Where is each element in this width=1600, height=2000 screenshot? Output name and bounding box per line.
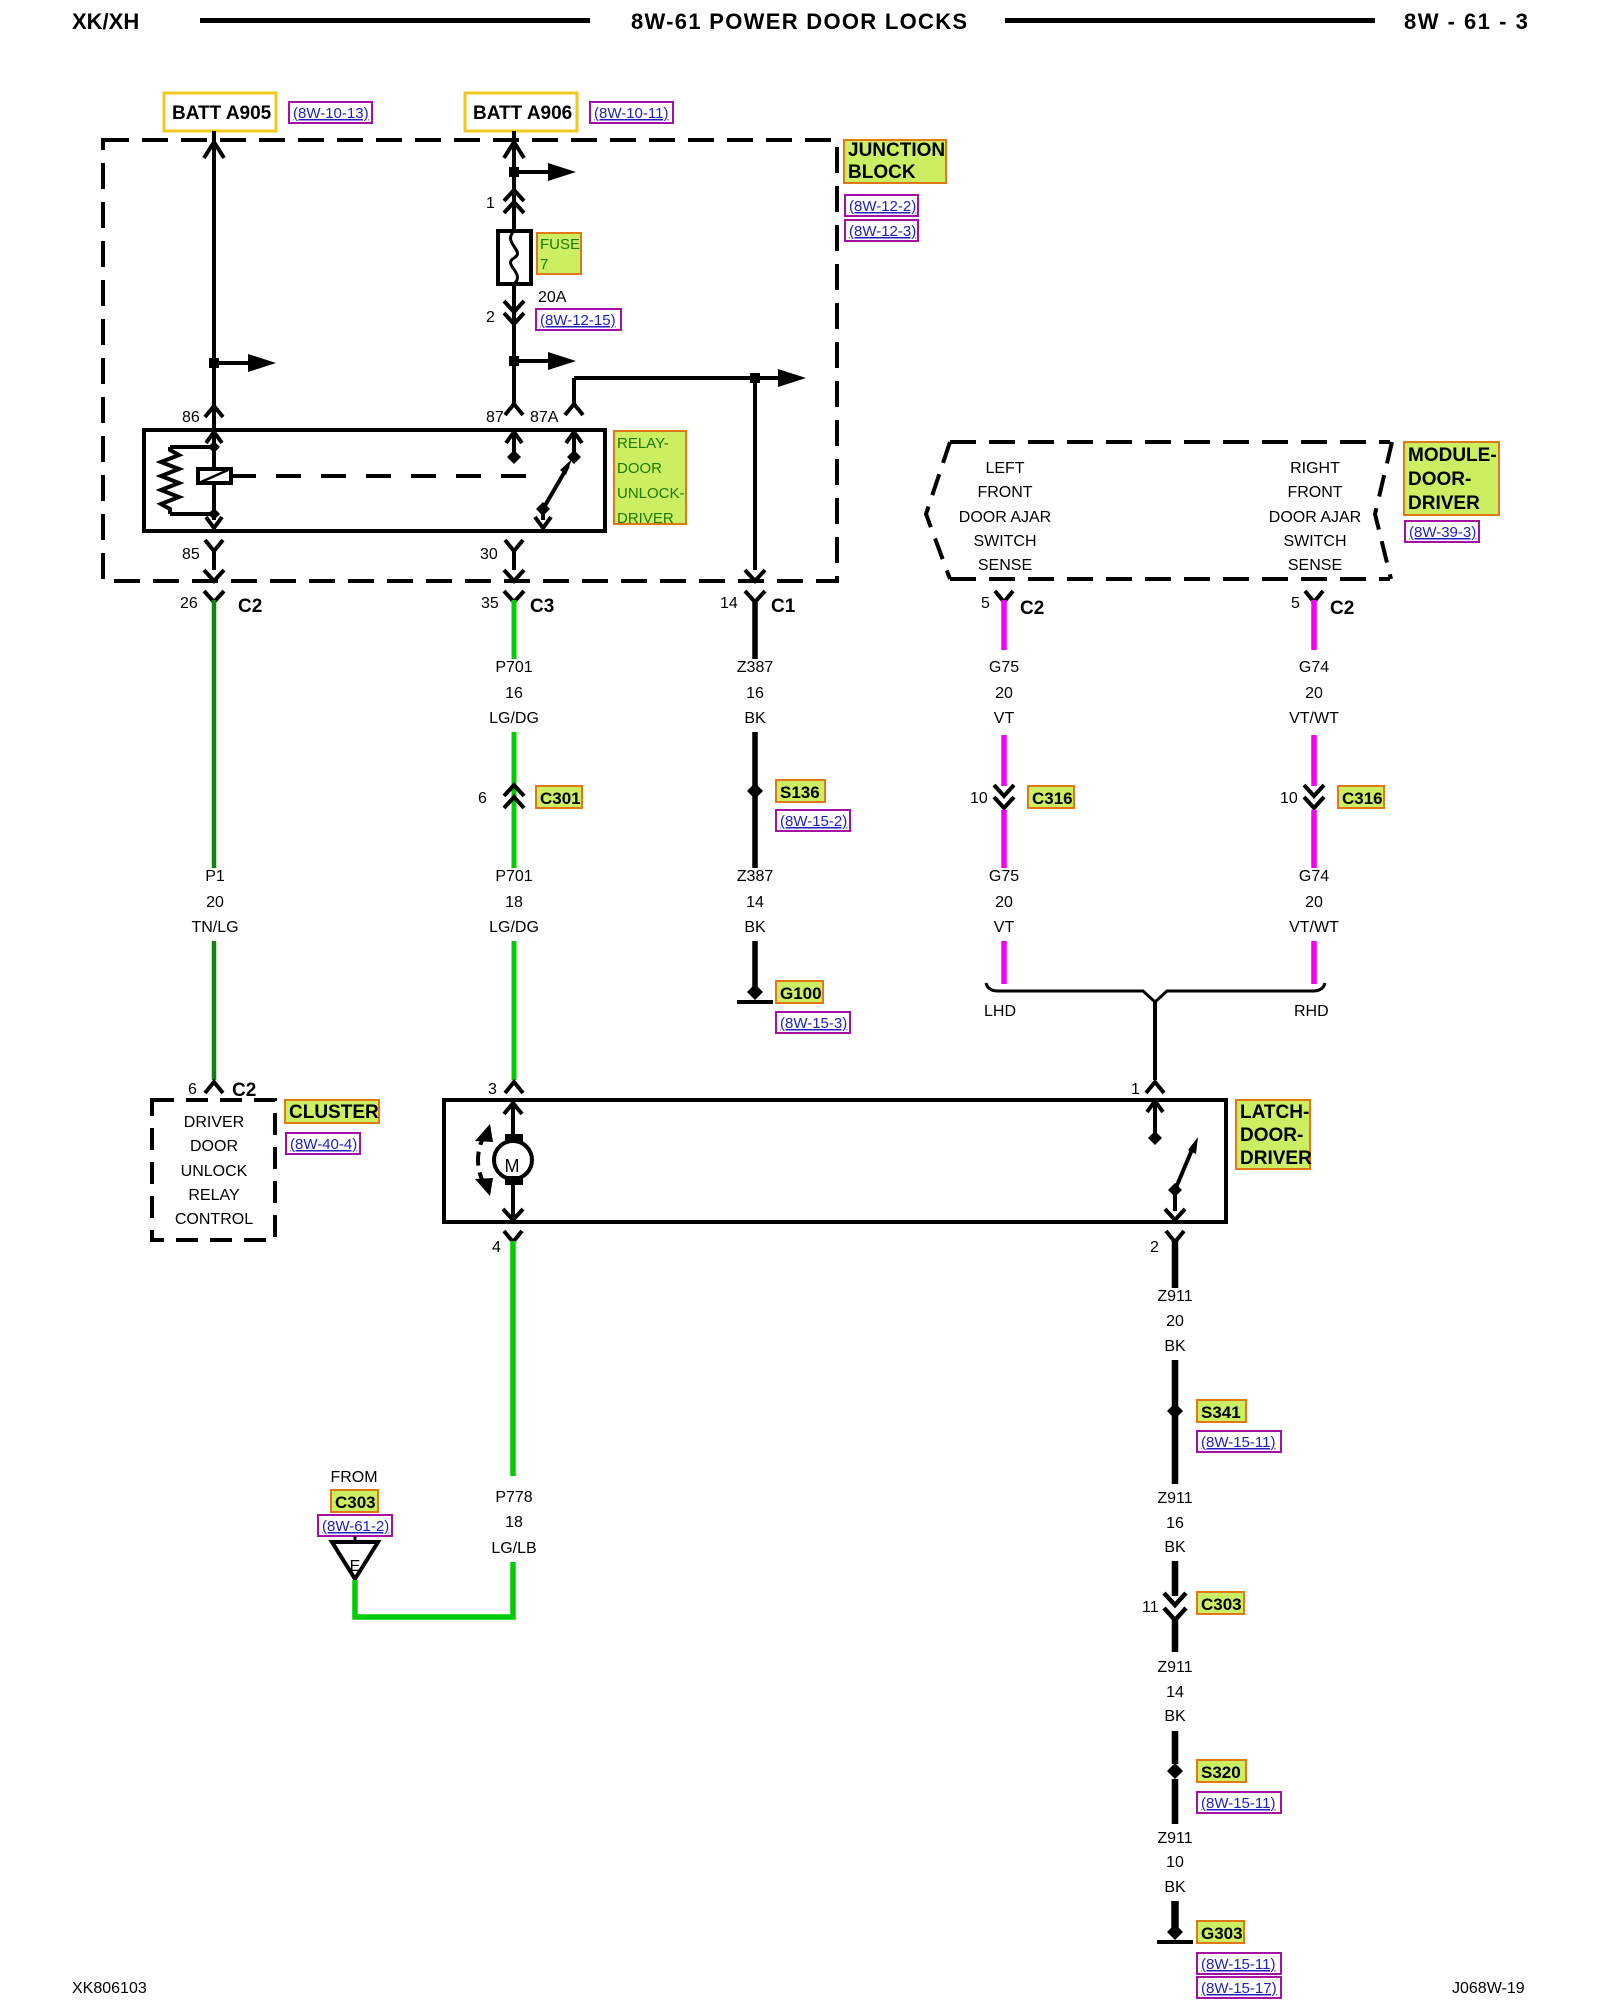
svg-text:S341: S341 xyxy=(1201,1403,1241,1422)
svg-text:6: 6 xyxy=(478,790,487,807)
svg-text:20: 20 xyxy=(206,894,224,911)
svg-text:G303: G303 xyxy=(1201,1924,1243,1943)
svg-text:UNLOCK: UNLOCK xyxy=(181,1163,248,1180)
svg-text:LHD: LHD xyxy=(984,1003,1016,1020)
link 8W-40-4 xyxy=(286,1133,360,1154)
svg-text:C3: C3 xyxy=(530,596,554,617)
svg-text:G75: G75 xyxy=(989,659,1019,676)
wire G74 tail xyxy=(1311,941,1317,984)
label C316 left xyxy=(1028,786,1074,808)
wire G74 20 VT/WT lower (violet) xyxy=(1311,810,1317,868)
connector pin 2 at latch xyxy=(1150,1231,1184,1256)
module door driver dashed box xyxy=(926,442,1392,579)
link 8W-15-11 xyxy=(1197,1792,1281,1813)
svg-text:11: 11 xyxy=(1142,1599,1159,1616)
svg-text:BK: BK xyxy=(744,919,766,936)
svg-text:DRIVER: DRIVER xyxy=(184,1114,244,1131)
svg-text:20: 20 xyxy=(995,685,1013,702)
svg-text:BATT A906: BATT A906 xyxy=(473,103,572,124)
svg-text:Z387: Z387 xyxy=(737,868,774,885)
wire Z911 10 upper xyxy=(1172,1779,1179,1824)
wire P701 18 upper segment xyxy=(512,812,517,868)
svg-text:(8W-15-3): (8W-15-3) xyxy=(780,1015,847,1032)
svg-text:XK/XH: XK/XH xyxy=(72,9,139,34)
connector C1 pin 14 xyxy=(720,591,796,617)
arrow up at junction block entry A905 xyxy=(204,142,224,158)
svg-text:RIGHT: RIGHT xyxy=(1290,460,1340,477)
svg-text:C2: C2 xyxy=(232,1080,256,1101)
svg-text:16: 16 xyxy=(746,685,764,702)
svg-text:C2: C2 xyxy=(238,596,262,617)
svg-text:(8W-39-3): (8W-39-3) xyxy=(1409,524,1476,541)
wire G74 20 VT/WT upper (violet) xyxy=(1311,600,1317,650)
svg-text:14: 14 xyxy=(720,595,738,612)
relay contact 87 stub xyxy=(506,432,522,464)
motor rotation arrow xyxy=(475,1124,493,1196)
svg-text:Z911: Z911 xyxy=(1157,1288,1192,1305)
svg-text:10: 10 xyxy=(1280,790,1298,807)
svg-text:1: 1 xyxy=(1131,1081,1140,1098)
svg-text:(8W-15-2): (8W-15-2) xyxy=(780,813,847,830)
branch arrow top from A906 wire xyxy=(514,163,576,181)
svg-text:20: 20 xyxy=(1305,894,1323,911)
svg-text:J068W-19: J068W-19 xyxy=(1452,1980,1525,1997)
connector C303 pin 11 xyxy=(1142,1593,1186,1620)
link 8W-12-3 xyxy=(845,220,918,241)
connector pin 1 of fuse xyxy=(486,190,524,213)
link 8W-10-13 xyxy=(289,102,372,123)
svg-text:DOOR-: DOOR- xyxy=(1240,1125,1303,1146)
svg-text:G75: G75 xyxy=(989,868,1019,885)
svg-text:LG/DG: LG/DG xyxy=(489,710,539,727)
svg-text:BK: BK xyxy=(1164,1708,1186,1725)
wire BATT A905 feed xyxy=(212,131,216,430)
wire P701 16 LG/DG (bright green) xyxy=(512,600,517,659)
svg-text:S320: S320 xyxy=(1201,1763,1241,1782)
svg-text:G74: G74 xyxy=(1299,868,1329,885)
svg-text:(8W-15-11): (8W-15-11) xyxy=(1201,1434,1275,1451)
module label MODULE-DOOR-DRIVER xyxy=(1404,442,1499,515)
svg-text:DOOR: DOOR xyxy=(190,1138,238,1155)
svg-text:VT: VT xyxy=(994,710,1015,727)
svg-text:LG/LB: LG/LB xyxy=(491,1540,536,1557)
svg-text:RELAY: RELAY xyxy=(188,1187,240,1204)
svg-text:P701: P701 xyxy=(495,868,532,885)
svg-text:SWITCH: SWITCH xyxy=(1283,533,1346,550)
connector C2 pin 5 left xyxy=(981,591,1044,619)
ground G303 xyxy=(1157,1921,1244,1943)
svg-text:DRIVER: DRIVER xyxy=(1240,1148,1312,1169)
connector C2 pin 5 right xyxy=(1291,591,1354,619)
svg-text:5: 5 xyxy=(1291,595,1300,612)
svg-text:SENSE: SENSE xyxy=(978,557,1032,574)
pin 87A xyxy=(530,404,583,426)
svg-text:10: 10 xyxy=(1166,1854,1184,1871)
header rule left xyxy=(200,18,590,23)
latch switch xyxy=(1147,1101,1198,1220)
wire G75 20 VT upper (violet) xyxy=(1001,600,1007,650)
module text LEFT FRONT DOOR AJAR SWITCH SENSE xyxy=(959,460,1051,574)
svg-text:M: M xyxy=(505,1156,520,1176)
splice S320 xyxy=(1167,1760,1246,1782)
svg-text:G100: G100 xyxy=(780,984,822,1003)
connector C316 pin 10 right xyxy=(1280,785,1324,808)
svg-text:C316: C316 xyxy=(1342,789,1383,808)
wire P778 from pin 4 (bright green) xyxy=(510,1241,516,1476)
motor M feed top xyxy=(504,1102,522,1134)
svg-text:BK: BK xyxy=(744,710,766,727)
svg-text:2: 2 xyxy=(486,309,495,326)
label C303 xyxy=(1197,1592,1244,1614)
label C303 from xyxy=(331,1490,378,1512)
motor M feed bottom xyxy=(503,1185,523,1220)
svg-text:CLUSTER: CLUSTER xyxy=(289,1102,379,1123)
svg-text:(8W-12-2): (8W-12-2) xyxy=(849,198,916,215)
svg-text:LEFT: LEFT xyxy=(985,460,1024,477)
svg-text:JUNCTION: JUNCTION xyxy=(848,140,945,161)
junction node on A905 wire xyxy=(209,358,219,368)
pin 30 xyxy=(480,540,524,581)
svg-text:XK806103: XK806103 xyxy=(72,1980,147,1997)
svg-text:1: 1 xyxy=(486,195,495,212)
svg-text:(8W-61-2): (8W-61-2) xyxy=(322,1518,389,1535)
svg-text:16: 16 xyxy=(505,685,523,702)
svg-text:30: 30 xyxy=(480,546,498,563)
svg-text:(8W-40-4): (8W-40-4) xyxy=(290,1136,357,1153)
svg-text:87A: 87A xyxy=(530,409,559,426)
latch box LATCH-DOOR-DRIVER xyxy=(444,1100,1226,1222)
wire Z911 20 BK segment xyxy=(1172,1241,1179,1288)
svg-text:P1: P1 xyxy=(205,868,225,885)
svg-text:C303: C303 xyxy=(335,1493,376,1512)
relay switch blade xyxy=(535,459,572,528)
svg-text:C2: C2 xyxy=(1020,598,1044,619)
wire P701 16 lower segment xyxy=(512,732,517,786)
wire BATT A906 feed upper xyxy=(512,131,516,232)
svg-text:(8W-15-11): (8W-15-11) xyxy=(1201,1795,1275,1812)
fuse F7 xyxy=(498,231,531,284)
connector C3 pin 35 xyxy=(481,591,554,617)
svg-text:26: 26 xyxy=(180,595,198,612)
svg-text:DRIVER: DRIVER xyxy=(617,510,674,527)
link 8W-15-17 xyxy=(1197,1977,1281,1998)
wire G75 mid segment xyxy=(1001,735,1007,786)
svg-text:MODULE-: MODULE- xyxy=(1408,445,1497,466)
svg-text:C1: C1 xyxy=(771,596,796,617)
svg-text:35: 35 xyxy=(481,595,499,612)
svg-text:P701: P701 xyxy=(495,659,532,676)
svg-text:85: 85 xyxy=(182,546,200,563)
brace LHD/RHD merge xyxy=(984,983,1329,1020)
svg-text:Z911: Z911 xyxy=(1157,1830,1192,1847)
wire Z911 10 lower xyxy=(1171,1901,1179,1928)
ground G100 xyxy=(737,981,823,1003)
svg-text:C316: C316 xyxy=(1032,789,1073,808)
link 8W-15-2 xyxy=(776,810,850,831)
svg-text:8W - 61 - 3: 8W - 61 - 3 xyxy=(1404,9,1529,34)
svg-text:BATT A905: BATT A905 xyxy=(172,103,272,124)
connector C2 pin 6 at cluster xyxy=(188,1080,256,1101)
wire Z911 16 lower xyxy=(1172,1561,1179,1596)
svg-text:UNLOCK-: UNLOCK- xyxy=(617,485,685,502)
svg-text:7: 7 xyxy=(540,256,548,273)
branch arrow from fused wire xyxy=(514,352,576,370)
wire 87A riser to C1 xyxy=(574,378,755,570)
svg-text:C2: C2 xyxy=(1330,598,1354,619)
svg-text:P778: P778 xyxy=(495,1489,532,1506)
wire Z387 14 lower segment xyxy=(752,941,758,988)
svg-text:RELAY-: RELAY- xyxy=(617,435,669,452)
branch arrow from A905 wire xyxy=(214,354,276,372)
relay contact 87A stub xyxy=(566,432,582,464)
wire P701 18 lower segment xyxy=(512,941,517,1080)
wire Z911 16 BK upper xyxy=(1172,1420,1179,1484)
svg-text:Z911: Z911 xyxy=(1157,1659,1192,1676)
link 8W-15-11 xyxy=(1197,1953,1281,1974)
svg-text:14: 14 xyxy=(746,894,764,911)
svg-text:3: 3 xyxy=(488,1081,497,1098)
svg-text:G74: G74 xyxy=(1299,659,1329,676)
splice S341 xyxy=(1167,1400,1246,1422)
relay box RELAY-DOOR UNLOCK DRIVER xyxy=(144,430,605,531)
svg-text:FRONT: FRONT xyxy=(977,484,1032,501)
connector C2 pin 26 xyxy=(180,591,262,617)
wire brace to latch pin 1 xyxy=(1153,1002,1157,1080)
pin 85 xyxy=(182,540,224,581)
svg-text:VT/WT: VT/WT xyxy=(1289,919,1339,936)
relay coil branch vertical xyxy=(206,432,222,528)
arrow up at junction block entry A906 xyxy=(504,142,524,158)
svg-text:(8W-10-13): (8W-10-13) xyxy=(293,105,369,122)
wire P778 elbow (bright green) xyxy=(355,1562,513,1617)
svg-text:DOOR: DOOR xyxy=(617,460,662,477)
svg-text:20: 20 xyxy=(1305,685,1323,702)
svg-text:5: 5 xyxy=(981,595,990,612)
svg-text:4: 4 xyxy=(492,1239,501,1256)
svg-text:2: 2 xyxy=(1150,1239,1159,1256)
link 8W-15-3 xyxy=(776,1012,850,1033)
svg-text:VT: VT xyxy=(994,919,1015,936)
wire Z387 16 lower segment xyxy=(752,732,758,800)
svg-text:20: 20 xyxy=(1166,1313,1184,1330)
svg-text:SWITCH: SWITCH xyxy=(973,533,1036,550)
link 8W-39-3 xyxy=(1405,521,1479,542)
connector C301 pin 6 xyxy=(478,785,524,812)
svg-text:VT/WT: VT/WT xyxy=(1289,710,1339,727)
junction block label xyxy=(844,140,946,183)
resistor in relay xyxy=(161,447,214,514)
svg-text:DOOR AJAR: DOOR AJAR xyxy=(959,509,1051,526)
svg-text:(8W-10-11): (8W-10-11) xyxy=(594,105,668,122)
motor M xyxy=(494,1134,532,1185)
relay coil symbol xyxy=(198,469,231,483)
cluster box text DRIVER DOOR UNLOCK RELAY CONTROL xyxy=(175,1114,253,1228)
svg-text:BK: BK xyxy=(1164,1338,1186,1355)
svg-text:LG/DG: LG/DG xyxy=(489,919,539,936)
node BATT A905 xyxy=(164,93,276,131)
junction block dashed box xyxy=(103,140,837,581)
svg-text:C303: C303 xyxy=(1201,1595,1242,1614)
svg-text:(8W-15-11): (8W-15-11) xyxy=(1201,1956,1275,1973)
junction node on fused wire xyxy=(509,356,519,366)
wire P1 20 TN/LG upper (dark green) xyxy=(212,600,217,868)
svg-text:FROM: FROM xyxy=(330,1469,377,1486)
cluster label xyxy=(285,1100,379,1123)
svg-text:20: 20 xyxy=(995,894,1013,911)
svg-text:86: 86 xyxy=(182,409,200,426)
svg-text:(8W-12-3): (8W-12-3) xyxy=(849,223,916,240)
header rule right xyxy=(1005,18,1375,23)
pin 87 xyxy=(486,404,523,426)
wire G75 tail xyxy=(1001,941,1007,984)
svg-text:Z911: Z911 xyxy=(1157,1490,1192,1507)
svg-text:87: 87 xyxy=(486,409,504,426)
connector pin 1 at latch xyxy=(1131,1081,1164,1098)
svg-text:18: 18 xyxy=(505,894,523,911)
relay actuation dashed link xyxy=(231,474,542,478)
wire G75 20 VT lower (violet) xyxy=(1001,810,1007,868)
svg-text:DRIVER: DRIVER xyxy=(1408,493,1480,514)
wire fuse to relay pin 87 xyxy=(512,284,516,404)
latch label LATCH-DOOR-DRIVER xyxy=(1236,1100,1312,1169)
svg-text:E: E xyxy=(350,1558,361,1575)
svg-text:LATCH-: LATCH- xyxy=(1240,1102,1309,1123)
connector E triangle xyxy=(332,1536,378,1579)
svg-text:(8W-12-15): (8W-12-15) xyxy=(540,312,616,329)
svg-text:FRONT: FRONT xyxy=(1287,484,1342,501)
svg-text:14: 14 xyxy=(1166,1684,1184,1701)
link 8W-15-11 xyxy=(1197,1431,1281,1452)
module text RIGHT FRONT DOOR AJAR SWITCH SENSE xyxy=(1269,460,1361,574)
svg-text:6: 6 xyxy=(188,1081,197,1098)
relay label xyxy=(614,431,686,527)
pin 86 xyxy=(182,406,223,426)
node BATT A906 xyxy=(465,93,577,131)
svg-text:SENSE: SENSE xyxy=(1288,557,1342,574)
svg-text:10: 10 xyxy=(970,790,988,807)
wire Z387 16 BK xyxy=(752,600,758,659)
svg-text:FUSE: FUSE xyxy=(540,236,580,253)
svg-text:BLOCK: BLOCK xyxy=(848,162,916,183)
svg-text:BK: BK xyxy=(1164,1539,1186,1556)
connector pin 2 of fuse xyxy=(486,301,524,326)
label C316 right xyxy=(1338,786,1384,808)
svg-text:S136: S136 xyxy=(780,783,820,802)
svg-text:Z387: Z387 xyxy=(737,659,774,676)
connector pin 3 at latch xyxy=(488,1081,523,1098)
arrow down at C1 dashed border xyxy=(745,570,765,581)
svg-text:16: 16 xyxy=(1166,1515,1184,1532)
link 8W-12-2 xyxy=(845,195,918,216)
link 8W-12-15 xyxy=(536,309,621,330)
svg-text:BK: BK xyxy=(1164,1879,1186,1896)
svg-text:RHD: RHD xyxy=(1294,1003,1329,1020)
svg-text:DOOR AJAR: DOOR AJAR xyxy=(1269,509,1361,526)
connector C316 pin 10 left xyxy=(970,785,1014,808)
cluster dashed box xyxy=(152,1100,275,1240)
wire Z911 to S341 xyxy=(1172,1360,1179,1420)
splice S136 xyxy=(747,780,825,802)
branch arrow from 87A wire xyxy=(755,369,806,387)
wire G74 mid segment xyxy=(1311,735,1317,786)
svg-text:8W-61 POWER DOOR LOCKS: 8W-61 POWER DOOR LOCKS xyxy=(631,9,968,34)
fuse label FUSE 7 xyxy=(537,233,581,274)
link 8W-61-2 xyxy=(318,1515,392,1536)
svg-text:20A: 20A xyxy=(538,289,567,306)
junction node on 87A wire xyxy=(750,373,760,383)
wire Z911 14 lower xyxy=(1172,1731,1179,1764)
link 8W-10-11 xyxy=(590,102,673,123)
svg-text:TN/LG: TN/LG xyxy=(191,919,238,936)
wire Z911 14 upper xyxy=(1172,1619,1179,1652)
wire P1 lower (dark green) xyxy=(212,941,217,1080)
wire Z387 14 upper segment xyxy=(752,800,758,868)
svg-text:DOOR-: DOOR- xyxy=(1408,469,1471,490)
svg-text:C301: C301 xyxy=(540,789,581,808)
svg-text:18: 18 xyxy=(505,1514,523,1531)
junction node on A906 wire top branch xyxy=(509,167,519,177)
label C301 xyxy=(536,786,582,808)
connector pin 4 at latch xyxy=(492,1231,522,1256)
svg-text:CONTROL: CONTROL xyxy=(175,1211,253,1228)
svg-text:(8W-15-17): (8W-15-17) xyxy=(1201,1980,1277,1997)
